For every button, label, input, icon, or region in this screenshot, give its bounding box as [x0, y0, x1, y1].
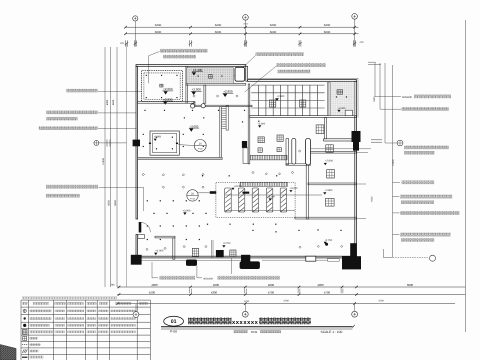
right wall side ticks [357, 151, 369, 153]
top grid bubble A [133, 16, 138, 21]
svg-text:+2.600: +2.600 [338, 107, 346, 110]
svg-text:4000: 4000 [151, 283, 158, 287]
right leader verticals [374, 63, 376, 97]
bottom doors [306, 256, 316, 261]
right room vent c [326, 198, 335, 206]
svg-text:6000: 6000 [155, 30, 162, 34]
grid room left/vestibule wall [248, 84, 250, 164]
svg-text:+2.800: +2.800 [163, 97, 173, 101]
right note: concealed T8 [393, 181, 401, 183]
column circle on wall [191, 104, 195, 108]
title underline [161, 326, 353, 328]
outer wall right [355, 81, 357, 262]
coffer downlights [156, 137, 157, 138]
svg-text:P-08: P-08 [170, 329, 177, 333]
left dimension lines [104, 47, 106, 287]
black column 4 stepped [241, 255, 250, 262]
svg-text:5600: 5600 [112, 99, 115, 105]
corner fragment [0, 345, 16, 360]
svg-text:+2.700: +2.700 [324, 239, 332, 242]
svg-text:4700: 4700 [324, 290, 331, 294]
left note: curved gypsum ceiling [46, 185, 98, 189]
coffer side ticks [149, 143, 151, 144]
right note: luminous film [393, 212, 400, 214]
toilet moistureproof ceiling area [187, 68, 234, 84]
outer wall left lower [136, 235, 138, 259]
curved wall pill 1 [292, 138, 296, 164]
svg-text:+3.200: +3.200 [267, 195, 275, 198]
right room vent b [327, 170, 335, 178]
right hatched strip [327, 83, 330, 116]
corridor vent [316, 125, 324, 134]
entry niche rounded duct [235, 67, 245, 81]
wall right of room 1 [186, 66, 188, 103]
right note: curved gypsum ceiling [393, 196, 400, 198]
vestibule bottom wall segment [286, 164, 311, 166]
bottom dim marks [189, 289, 191, 294]
hall downlight dots lower [147, 200, 148, 201]
right note: 600x600 mineral board [375, 96, 401, 98]
entrance wall stub [286, 139, 289, 165]
svg-text:P-32: P-32 [198, 148, 203, 151]
bottom right lamps [299, 246, 301, 248]
svg-text:+3.000: +3.000 [155, 249, 164, 252]
hall-vestibule divider wall [220, 107, 222, 158]
svg-text:P039: P039 [251, 331, 258, 334]
vestibule column outline [243, 148, 248, 163]
curtain box ticked band [240, 182, 288, 186]
outer wall top-left [136, 65, 246, 67]
legend bubble A [135, 304, 137, 312]
svg-text:+3.000: +3.000 [190, 124, 199, 128]
top right small room [330, 82, 354, 116]
outer wall left upper [136, 66, 138, 219]
right rooms left wall [306, 165, 308, 220]
leader line from arc ceiling [311, 148, 372, 150]
svg-text:6000: 6000 [370, 196, 373, 202]
svg-text:200: 200 [360, 41, 365, 44]
svg-text:SCALE 1 : 100: SCALE 1 : 100 [321, 330, 343, 334]
svg-text:01: 01 [171, 319, 177, 325]
top dimension line 1 [126, 26, 359, 28]
teller counter dashed zone [216, 183, 295, 218]
coffer ceiling inner [153, 134, 177, 153]
top note: gypsum ceiling white paint [160, 49, 208, 53]
black column bottom left [131, 255, 142, 265]
svg-text:+2.800: +2.800 [325, 189, 333, 192]
outer wall step at grid B [246, 66, 248, 81]
top grid bubble B [243, 15, 249, 21]
counter lines [225, 194, 322, 196]
wall below grid room [250, 116, 357, 118]
ticked light trough beam [250, 155, 287, 160]
main horizontal bulkhead [138, 157, 223, 159]
svg-text:6200: 6200 [155, 23, 162, 27]
wall small room divider [204, 85, 206, 103]
teller light boxes [225, 188, 232, 212]
L bulkhead horizontal [155, 236, 175, 238]
right note: toilet ceiling [380, 108, 401, 110]
bottom grid bubble C [354, 304, 356, 312]
curved wall pill 2 [306, 138, 311, 165]
right detail mark circle [385, 142, 397, 144]
vestibule vents [258, 137, 264, 143]
black column bottom right [342, 256, 361, 269]
lamps near bottom wall [146, 248, 148, 250]
black column right wall top [352, 131, 361, 142]
wall below toilet [186, 84, 246, 86]
right bottom leader elbow [391, 257, 429, 259]
svg-text:6200: 6200 [215, 23, 222, 27]
svg-text:+2.950: +2.950 [163, 87, 173, 91]
top note: toilet moistureproof ceiling [256, 52, 304, 56]
door threshold [138, 235, 145, 239]
right note: gypsum ceiling [404, 146, 449, 150]
legend row symbols [23, 309, 26, 312]
svg-text:6200: 6200 [270, 23, 277, 27]
left note: luminous film T8 [39, 126, 98, 130]
right note: shaped gypsum ceiling [393, 234, 400, 236]
bottom dim line 1 [117, 286, 465, 288]
vestibule black column [242, 141, 247, 148]
svg-text:6000: 6000 [270, 30, 277, 34]
svg-text:+3.150: +3.150 [234, 185, 242, 188]
bottom grid bubble B [244, 304, 246, 312]
bottom overall dim line [117, 303, 455, 305]
door swing arc [141, 223, 150, 233]
svg-text:600x600: 600x600 [402, 96, 413, 99]
svg-text:4700: 4700 [283, 300, 289, 303]
leader target square [210, 191, 216, 194]
bottom note: louver [159, 276, 195, 280]
black column 2 [186, 260, 197, 266]
svg-text:4700: 4700 [378, 300, 384, 303]
grid room vent 2 [300, 100, 306, 107]
svg-text:6000: 6000 [324, 30, 331, 34]
svg-text:6000: 6000 [114, 200, 117, 206]
hall downlight dots upper [144, 110, 145, 111]
right room vent a [326, 145, 334, 152]
room1 vent symbol [160, 84, 163, 87]
svg-text:+2.400: +2.400 [193, 68, 203, 72]
svg-text:4700: 4700 [268, 290, 275, 294]
door leaf [139, 222, 142, 233]
svg-text:+2.800: +2.800 [192, 88, 202, 92]
svg-text:+3.000: +3.000 [182, 209, 191, 212]
right rooms wall C [295, 217, 357, 219]
title text [188, 318, 232, 325]
bottom dim line 2 [117, 294, 465, 296]
legend table frame [21, 299, 150, 301]
svg-text:6000: 6000 [106, 99, 109, 105]
right long extension line [464, 20, 466, 332]
wall top of right rooms [324, 139, 357, 141]
600x600 grid ceiling [251, 84, 324, 86]
svg-text:12300: 12300 [392, 159, 395, 166]
svg-text:12300: 12300 [102, 158, 105, 165]
left note: concealed T8 tube [66, 89, 97, 93]
black column 3 [216, 250, 224, 257]
svg-text:4000: 4000 [268, 283, 275, 287]
dashed guide verticals [210, 240, 212, 258]
toilet downlights [198, 76, 199, 77]
legend note line [22, 297, 117, 300]
wall below room 1 [138, 102, 195, 104]
black arrow marks [243, 192, 250, 194]
bottom wall vents [192, 248, 198, 256]
right rooms wall A [306, 151, 357, 153]
outer wall bottom [136, 256, 357, 258]
legend row cells [30, 310, 52, 313]
svg-text:4300: 4300 [211, 290, 218, 294]
legend header cells [22, 302, 27, 305]
outer wall top-right [248, 80, 357, 82]
svg-text:+2.800: +2.800 [223, 90, 233, 94]
svg-text:xxxxxxx: xxxxxxx [232, 320, 259, 326]
left note: gypsum board ceiling [46, 111, 97, 115]
svg-text:4200: 4200 [149, 290, 156, 294]
top note: gypsum ceiling 2 [276, 63, 325, 67]
right rooms wall B [308, 183, 357, 185]
corridor wall x325 [325, 118, 327, 139]
svg-text:6000: 6000 [407, 283, 414, 287]
column circle on wall 2 [201, 104, 205, 108]
svg-text:+3.150: +3.150 [290, 187, 298, 190]
room1 downlights [146, 75, 147, 76]
coffer ceiling outer [150, 131, 179, 155]
svg-text:400x400: 400x400 [203, 277, 213, 280]
stair ladder symbol [226, 106, 229, 130]
title number ellipse [164, 316, 184, 326]
svg-text:+2.700: +2.700 [223, 242, 231, 245]
L bulkhead vertical [173, 238, 175, 259]
grid line stems top [134, 21, 136, 47]
section bubble 2 [187, 190, 198, 201]
svg-text:+2.800: +2.800 [325, 160, 333, 163]
svg-text:+2.950: +2.950 [153, 135, 161, 138]
bulkhead below small rooms [194, 102, 196, 107]
toilet vent [209, 75, 213, 79]
grid room vent 1 [269, 100, 275, 107]
top dimension line 2 [126, 33, 359, 35]
outer boundary offset line [248, 77, 358, 79]
svg-text:6000: 6000 [108, 200, 111, 206]
left wall black column [133, 140, 140, 147]
title area / scale [234, 330, 248, 333]
svg-text:4000: 4000 [317, 283, 324, 287]
svg-text:+2.600: +2.600 [257, 122, 265, 125]
hall diamond lamps [142, 173, 144, 175]
svg-text:6200: 6200 [324, 23, 331, 27]
dim extension marks [125, 40, 127, 46]
top grid bubble C [352, 14, 358, 20]
svg-text:200: 200 [120, 42, 125, 45]
svg-text:+2.800: +2.800 [277, 95, 285, 98]
curved wall pill 2 overdraw [306, 138, 311, 165]
bottom leader stems [151, 262, 153, 278]
svg-text:6000: 6000 [215, 30, 222, 34]
svg-text:P-32: P-32 [190, 197, 195, 200]
svg-text:4700: 4700 [244, 300, 250, 303]
room1 luminous film border [142, 71, 183, 102]
left level datum mark [94, 140, 99, 145]
svg-text:4000: 4000 [213, 283, 220, 287]
section bubble 1 [178, 144, 194, 147]
